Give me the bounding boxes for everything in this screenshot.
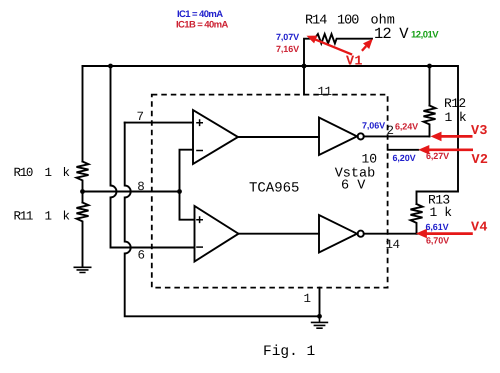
svg-text:6 V: 6 V bbox=[341, 179, 366, 194]
svg-text:IC1B = 40mA: IC1B = 40mA bbox=[176, 20, 228, 31]
svg-text:7: 7 bbox=[137, 110, 145, 124]
svg-text:V3: V3 bbox=[471, 124, 488, 139]
svg-text:14: 14 bbox=[386, 238, 400, 252]
svg-text:6,27V: 6,27V bbox=[426, 151, 449, 161]
svg-text:R11: R11 bbox=[14, 210, 33, 224]
svg-text:7,16V: 7,16V bbox=[276, 44, 299, 54]
svg-text:10: 10 bbox=[362, 152, 378, 167]
svg-text:IC1 = 40mA: IC1 = 40mA bbox=[177, 9, 223, 20]
svg-text:V4: V4 bbox=[471, 221, 488, 236]
svg-text:100: 100 bbox=[337, 14, 359, 29]
svg-text:R10: R10 bbox=[14, 166, 33, 180]
svg-text:6,24V: 6,24V bbox=[395, 122, 418, 132]
svg-text:6: 6 bbox=[138, 248, 146, 262]
svg-text:R14: R14 bbox=[305, 14, 327, 29]
svg-text:7,06V: 7,06V bbox=[362, 121, 385, 131]
svg-text:1: 1 bbox=[45, 210, 53, 224]
svg-text:6,70V: 6,70V bbox=[426, 236, 449, 246]
svg-text:11: 11 bbox=[318, 85, 332, 99]
svg-text:TCA965: TCA965 bbox=[249, 181, 299, 197]
svg-text:k: k bbox=[63, 166, 71, 180]
svg-text:1: 1 bbox=[304, 292, 312, 306]
svg-text:k: k bbox=[63, 210, 71, 224]
svg-text:8: 8 bbox=[137, 180, 145, 194]
svg-text:1 k: 1 k bbox=[430, 205, 453, 220]
svg-text:Fig. 1: Fig. 1 bbox=[263, 344, 315, 360]
svg-text:1 k: 1 k bbox=[445, 110, 467, 125]
svg-text:V2: V2 bbox=[472, 153, 489, 168]
svg-text:6,61V: 6,61V bbox=[426, 222, 449, 232]
svg-text:1: 1 bbox=[45, 166, 53, 180]
svg-text:7,07V: 7,07V bbox=[276, 32, 299, 42]
svg-text:V1: V1 bbox=[346, 55, 363, 70]
svg-text:12,01V: 12,01V bbox=[411, 30, 439, 41]
svg-text:2: 2 bbox=[387, 124, 395, 138]
svg-text:R12: R12 bbox=[444, 96, 466, 111]
svg-text:6,20V: 6,20V bbox=[393, 153, 416, 163]
svg-text:12 V: 12 V bbox=[374, 25, 409, 43]
